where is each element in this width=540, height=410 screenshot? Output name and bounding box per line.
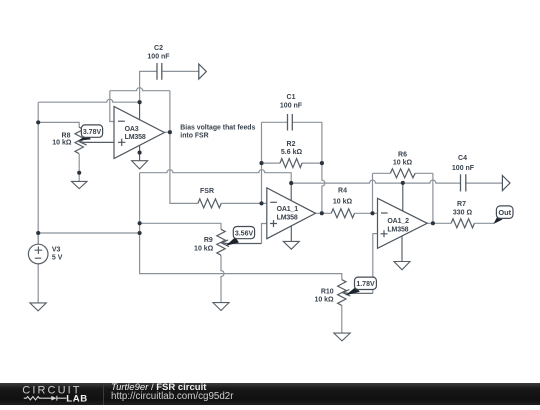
wire OA3 feedback: [110, 88, 170, 133]
wire R8 bottom: [78, 154, 80, 181]
node OA3 output junction: [168, 130, 172, 134]
node OA1_2 V+ junction: [401, 181, 405, 185]
svg-text:R2: R2: [287, 141, 296, 148]
wire R6 loop: [373, 173, 433, 223]
wire V3 branch: [38, 233, 139, 303]
wire R2 to OA1_1 output with hop: [322, 163, 325, 213]
op-amp OA1_1: [267, 183, 316, 241]
svg-text:R7: R7: [457, 201, 466, 208]
wire OA1_2 output to R7: [427, 222, 494, 224]
svg-text:10 kΩ: 10 kΩ: [333, 199, 353, 206]
annotation 1.78V: [345, 277, 376, 295]
resistor R10: [338, 280, 373, 306]
svg-text:R4: R4: [338, 188, 347, 195]
svg-text:OA1_1: OA1_1: [277, 206, 299, 213]
node 5V rail / R8 top junction: [36, 120, 40, 124]
svg-text:Out: Out: [498, 208, 511, 217]
svg-text:R9: R9: [204, 237, 213, 244]
ground under OA3: [132, 161, 148, 169]
port flag right: [502, 176, 510, 191]
wire OA1_2 plus branch: [373, 234, 378, 294]
capacitor C2: [157, 63, 162, 80]
wire C2 branch: [140, 71, 199, 102]
svg-text:V3: V3: [52, 247, 61, 254]
svg-text:10 kΩ: 10 kΩ: [52, 140, 72, 147]
node R2 right junction: [320, 161, 324, 165]
wire R8 top branch: [38, 122, 79, 127]
svg-text:3.78V: 3.78V: [83, 129, 102, 136]
svg-text:10 kΩ: 10 kΩ: [393, 160, 413, 167]
svg-text:LM358: LM358: [125, 134, 146, 141]
capacitor C4: [461, 174, 466, 191]
resistor R9: [217, 229, 262, 255]
capacitor C1: [288, 114, 293, 131]
wire 5V left vertical: [37, 102, 39, 244]
svg-text:5.6 kΩ: 5.6 kΩ: [281, 149, 303, 156]
svg-text:R6: R6: [398, 152, 407, 159]
node R9 top junction: [138, 221, 142, 225]
ground under OA1_1: [283, 241, 299, 249]
svg-text:C1: C1: [287, 94, 296, 101]
svg-text:Bias voltage that feeds: Bias voltage that feeds: [180, 124, 255, 131]
svg-text:10 kΩ: 10 kΩ: [194, 245, 214, 252]
node OA1_2 output junction: [431, 221, 435, 225]
note bias text: [180, 124, 255, 139]
node R4 / R6 / OA1_2 minus junction: [370, 211, 374, 215]
wire OA1_1 plus branch: [262, 224, 267, 244]
svg-text:330 Ω: 330 Ω: [453, 209, 473, 216]
node V3 plus junction: [36, 231, 40, 235]
wire bias rail: [140, 170, 503, 183]
wire R9 top branch: [140, 223, 221, 229]
svg-text:10 kΩ: 10 kΩ: [314, 297, 334, 304]
port flag top: [199, 64, 207, 79]
resistor R6: [390, 169, 415, 178]
wire R10 bottom: [341, 305, 343, 333]
svg-text:100 nF: 100 nF: [280, 102, 303, 109]
svg-text:1.78V: 1.78V: [356, 281, 375, 288]
op-amp OA1_2: [378, 183, 428, 262]
svg-text:OA1_2: OA1_2: [387, 218, 409, 225]
wire R9 bottom with hop: [221, 255, 224, 302]
wire bottom rail: [140, 173, 342, 280]
wire R2 leads: [262, 162, 322, 164]
wire OA3 output down to FSR: [164, 132, 266, 203]
svg-text:LM358: LM358: [387, 226, 408, 233]
node OA1_1 V+ junction: [289, 181, 293, 185]
annotation 3.78V: [78, 125, 102, 141]
svg-text:LM358: LM358: [277, 214, 298, 221]
svg-text:R8: R8: [62, 133, 71, 140]
node FSR / OA1_1 minus junction: [259, 201, 263, 205]
ground under V3: [30, 303, 46, 311]
node R8 bottom ground junction: [77, 171, 81, 175]
svg-text:R10: R10: [321, 288, 334, 295]
wire 5V top horizontal with hop: [38, 99, 139, 102]
svg-text:100 nF: 100 nF: [147, 53, 170, 60]
resistor FSR: [198, 199, 221, 208]
resistor R8: [75, 127, 114, 153]
resistor R4: [331, 209, 354, 218]
annotation 3.56V: [226, 227, 255, 246]
resistor R7: [451, 219, 474, 228]
svg-text:C4: C4: [458, 155, 467, 162]
Out flag: [493, 206, 513, 224]
wire C1 loop: [262, 122, 322, 203]
node 5V vertical / V3 wire junction: [138, 231, 142, 235]
node R2 left junction: [259, 161, 263, 165]
ground under R9: [213, 303, 229, 311]
svg-text:C2: C2: [154, 45, 163, 52]
op-amp OA3: [114, 102, 164, 161]
node OA1_1 output junction: [320, 211, 324, 215]
svg-text:into FSR: into FSR: [180, 133, 208, 140]
ground under R10: [334, 333, 350, 341]
node OA3 V- ground junction: [138, 151, 142, 155]
wire OA1_1 output to R4: [316, 212, 378, 214]
node OA3 V+ junction: [138, 100, 142, 104]
resistor R2: [280, 159, 302, 168]
svg-text:3.56V: 3.56V: [235, 230, 254, 237]
ground under R8: [72, 181, 88, 188]
svg-text:OA3: OA3: [125, 126, 139, 133]
svg-text:100 nF: 100 nF: [452, 165, 475, 172]
svg-text:FSR: FSR: [200, 188, 214, 195]
ground under OA1_2: [394, 262, 410, 270]
voltage source V3: [28, 244, 48, 264]
svg-text:5 V: 5 V: [52, 255, 63, 262]
svg-text:LAB: LAB: [66, 394, 88, 405]
